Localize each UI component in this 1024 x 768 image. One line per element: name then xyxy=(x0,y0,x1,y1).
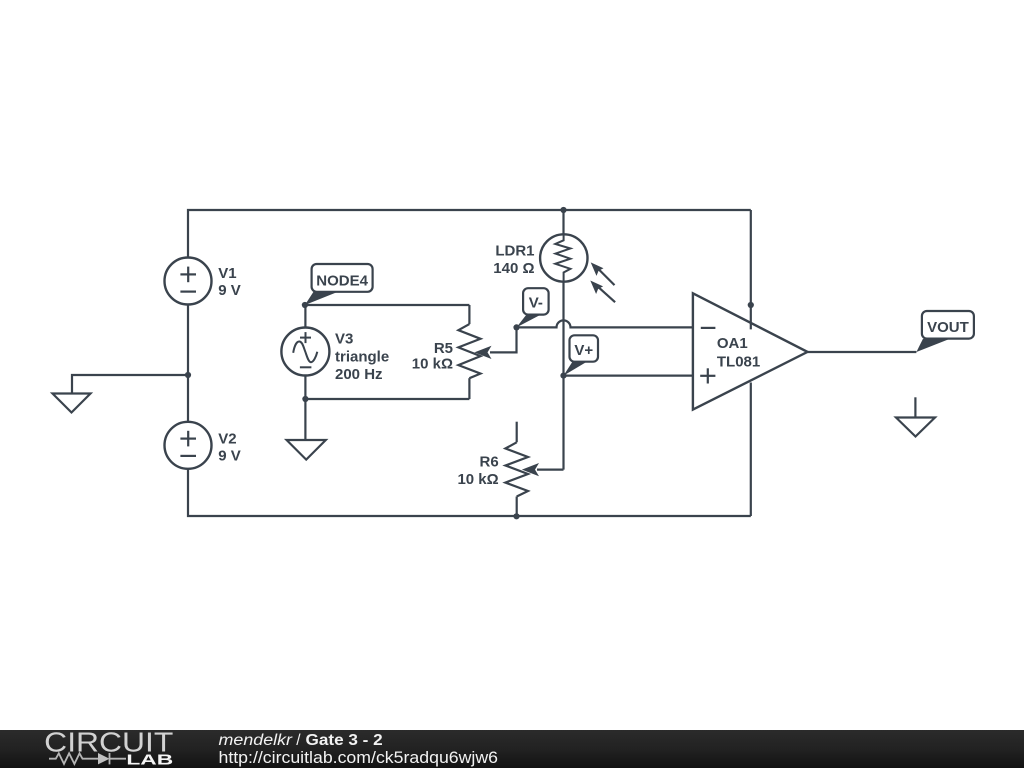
svg-text:V1: V1 xyxy=(218,265,236,282)
svg-text:10 kΩ: 10 kΩ xyxy=(457,471,498,488)
svg-text:/: / xyxy=(296,732,301,749)
svg-text:140 Ω: 140 Ω xyxy=(493,260,534,277)
svg-text:mendelkr: mendelkr xyxy=(219,732,293,749)
svg-text:V-: V- xyxy=(529,295,543,312)
svg-text:Gate 3 - 2: Gate 3 - 2 xyxy=(306,732,383,749)
svg-text:V2: V2 xyxy=(218,430,236,447)
svg-text:R6: R6 xyxy=(480,454,499,471)
svg-text:NODE4: NODE4 xyxy=(316,273,368,290)
svg-text:9 V: 9 V xyxy=(218,282,241,299)
svg-text:LDR1: LDR1 xyxy=(495,243,534,260)
svg-text:V+: V+ xyxy=(574,342,593,359)
svg-text:OA1: OA1 xyxy=(717,335,748,352)
svg-text:200 Hz: 200 Hz xyxy=(335,366,383,383)
svg-text:triangle: triangle xyxy=(335,348,389,365)
svg-text:TL081: TL081 xyxy=(717,354,760,371)
svg-text:VOUT: VOUT xyxy=(927,319,969,336)
svg-text:LAB: LAB xyxy=(126,752,173,768)
svg-text:http://circuitlab.com/ck5radqu: http://circuitlab.com/ck5radqu6wjw6 xyxy=(219,748,499,767)
svg-text:R5: R5 xyxy=(434,340,453,357)
svg-text:V3: V3 xyxy=(335,331,353,348)
svg-text:9 V: 9 V xyxy=(218,447,241,464)
svg-text:10 kΩ: 10 kΩ xyxy=(412,356,453,373)
